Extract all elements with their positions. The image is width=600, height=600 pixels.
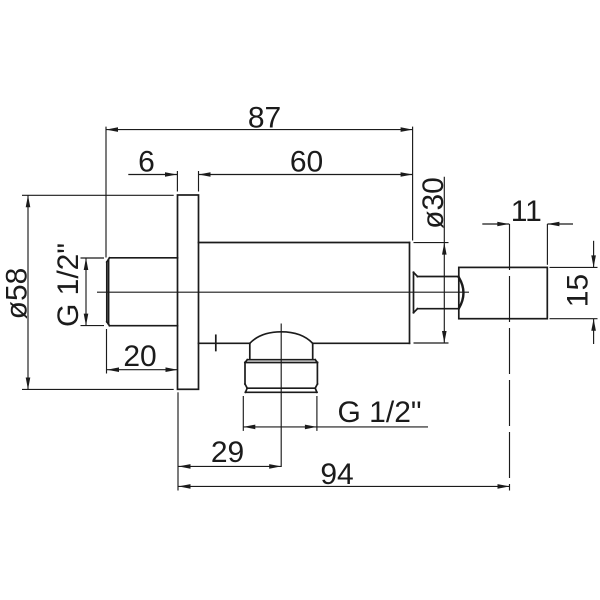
svg-text:G 1/2": G 1/2" bbox=[52, 243, 85, 327]
svg-text:94: 94 bbox=[320, 458, 353, 491]
svg-text:11: 11 bbox=[511, 195, 542, 228]
svg-text:29: 29 bbox=[211, 436, 244, 469]
svg-text:87: 87 bbox=[248, 102, 281, 135]
svg-text:ø58: ø58 bbox=[1, 268, 34, 320]
svg-text:6: 6 bbox=[138, 146, 155, 179]
svg-text:15: 15 bbox=[562, 274, 595, 307]
svg-text:ø30: ø30 bbox=[417, 177, 450, 229]
svg-text:60: 60 bbox=[290, 146, 323, 179]
svg-text:20: 20 bbox=[123, 340, 156, 373]
svg-text:G 1/2": G 1/2" bbox=[338, 396, 422, 429]
